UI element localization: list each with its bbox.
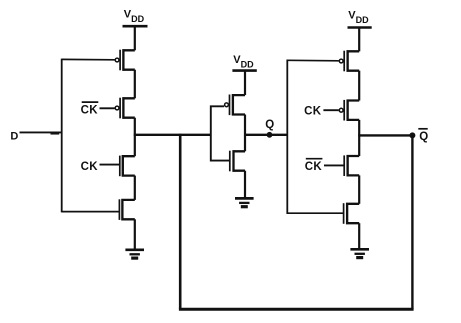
wire M9 source to M10 drain xyxy=(358,175,360,203)
wire M5 drain to M6 drain (node Q) xyxy=(244,115,246,152)
label CK (M3 gate) xyxy=(81,161,99,173)
ground (stage 3) xyxy=(350,249,369,257)
svg-text:Q: Q xyxy=(265,119,274,131)
wire M8 gate lead xyxy=(323,109,338,111)
wire VDD to M1 source xyxy=(134,26,136,50)
label CK-bar (M2 gate) xyxy=(81,102,99,116)
svg-text:CK: CK xyxy=(305,161,323,173)
wire VDD to M7 source xyxy=(358,28,360,52)
wire VDD to M5 source xyxy=(244,71,246,96)
power VDD rail (inverter) xyxy=(232,54,256,71)
wire node X: stage 1 output to inverter input xyxy=(134,134,211,136)
transistor M5 (PMOS inverter) xyxy=(225,94,245,115)
node Q-bar (junction dot) xyxy=(409,132,415,138)
wire inverter input bus xyxy=(211,106,230,160)
wire M6 source to ground xyxy=(244,171,246,198)
label CK-bar (M9 gate) xyxy=(305,159,323,173)
wire inverter output to stage 3 input xyxy=(244,134,287,136)
wire M3 gate lead xyxy=(100,164,120,166)
power VDD rail (stage 3) xyxy=(348,10,372,28)
ground (stage 1) xyxy=(125,250,144,258)
svg-text:VDD: VDD xyxy=(233,54,254,69)
wire D input (scan double-stroke) xyxy=(51,133,60,135)
wire M3 source to M4 drain xyxy=(134,176,136,200)
svg-text:CK: CK xyxy=(81,161,99,173)
transistor M8 (PMOS, clock CK) xyxy=(339,100,359,121)
wire Q-bar output rail xyxy=(358,134,412,136)
wire stage 1 input bus xyxy=(61,59,63,213)
label CK (M8 gate) xyxy=(304,105,322,117)
wire M9 gate lead xyxy=(324,164,344,166)
transistor M1 (PMOS, gate D) xyxy=(115,49,135,70)
ground (inverter) xyxy=(235,198,254,206)
wire M2 gate lead xyxy=(100,107,115,109)
svg-text:Q: Q xyxy=(419,131,428,143)
svg-text:CK: CK xyxy=(81,104,99,116)
wire M1 gate lead xyxy=(62,58,115,60)
transistor M3 (NMOS, clock CK) xyxy=(120,155,135,176)
power VDD rail (stage 1) xyxy=(123,9,148,27)
transistor M6 (NMOS inverter) xyxy=(230,150,245,171)
wire M10 source to ground xyxy=(358,223,360,249)
wire stage 3 input bus xyxy=(286,60,288,215)
svg-text:VDD: VDD xyxy=(348,10,369,25)
wire M1 drain to M2 source xyxy=(134,70,136,99)
wire M4 source to ground xyxy=(134,219,136,249)
svg-text:VDD: VDD xyxy=(124,9,145,24)
transistor M2 (PMOS, clock CK-bar) xyxy=(115,97,135,118)
wire M4 gate lead xyxy=(62,211,120,213)
wire M10 gate lead xyxy=(287,212,343,214)
svg-text:CK: CK xyxy=(304,105,322,117)
svg-text:D: D xyxy=(10,130,18,142)
wire feedback: bottom run xyxy=(179,308,414,311)
transistor M9 (NMOS, clock CK-bar) xyxy=(344,155,359,176)
node Q (junction dot) xyxy=(267,132,273,138)
wire D input xyxy=(20,131,62,133)
wire M2 drain to M3 drain (internal node X) xyxy=(134,118,136,157)
transistor M7 (PMOS, gate Q) xyxy=(339,50,359,71)
wire M8 drain to M9 drain (node Q-bar) xyxy=(358,120,360,156)
transistor M4 (NMOS, gate D) xyxy=(119,199,134,220)
transistor M10 (NMOS, gate Q) xyxy=(344,203,360,224)
wire M7 drain to M8 source xyxy=(358,71,360,101)
wire M7 gate lead xyxy=(287,59,339,62)
wire feedback: Q-bar down xyxy=(411,135,413,309)
wire feedback: node X down xyxy=(179,134,182,309)
